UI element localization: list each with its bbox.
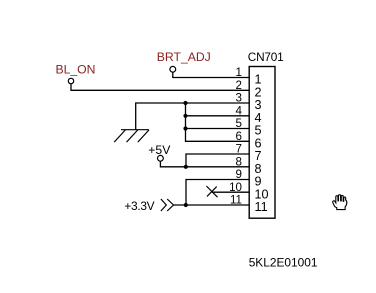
svg-text:11: 11	[230, 194, 242, 207]
no-connect X pin 10	[206, 186, 217, 197]
svg-text:4: 4	[236, 105, 243, 118]
wire pin 10	[212, 191, 249, 193]
wire BRT_ADJ to pin 1	[173, 72, 249, 77]
wire ground to pin 3	[136, 103, 249, 130]
wire BL_ON to pin 2	[71, 84, 249, 91]
wire pin 5	[186, 128, 250, 130]
wire +5V to pin 8	[160, 161, 249, 167]
svg-text:1: 1	[236, 66, 242, 79]
junction pin 4 bus	[183, 114, 187, 118]
wire pin 7 bus	[186, 154, 249, 167]
junction pin 5 bus	[183, 126, 187, 130]
hand cursor	[333, 195, 347, 210]
svg-text:BRT_ADJ: BRT_ADJ	[157, 50, 211, 64]
svg-text:6: 6	[236, 130, 242, 143]
svg-text:5: 5	[236, 117, 242, 130]
wire +3.3V to pin 11	[174, 204, 250, 206]
svg-text:5KL2E01001: 5KL2E01001	[249, 256, 318, 270]
terminal BRT_ADJ	[170, 66, 176, 72]
wire pin 4	[186, 115, 250, 117]
svg-text:+5V: +5V	[148, 143, 171, 157]
junction pin 3 bus	[183, 101, 187, 105]
terminal +5V	[158, 155, 164, 161]
svg-text:10: 10	[229, 181, 242, 194]
ground bus wire pins 3-6	[186, 103, 250, 141]
svg-text:2: 2	[236, 79, 242, 92]
svg-text:9: 9	[236, 168, 242, 181]
junction pin 8 bus	[184, 165, 188, 169]
svg-text:CN701: CN701	[248, 50, 284, 64]
svg-text:BL_ON: BL_ON	[56, 63, 96, 77]
ground	[114, 130, 149, 142]
svg-text:+3.3V: +3.3V	[124, 199, 154, 213]
svg-text:7: 7	[236, 143, 242, 156]
connector CN701 box	[249, 67, 275, 219]
junction pin 11 bus	[184, 203, 188, 207]
svg-text:8: 8	[236, 156, 242, 169]
wire pin 9 bus	[186, 180, 249, 206]
terminal BL_ON	[68, 78, 73, 83]
power chevron +3.3V	[161, 199, 174, 211]
svg-text:3: 3	[236, 92, 242, 105]
svg-text:11: 11	[255, 200, 268, 214]
